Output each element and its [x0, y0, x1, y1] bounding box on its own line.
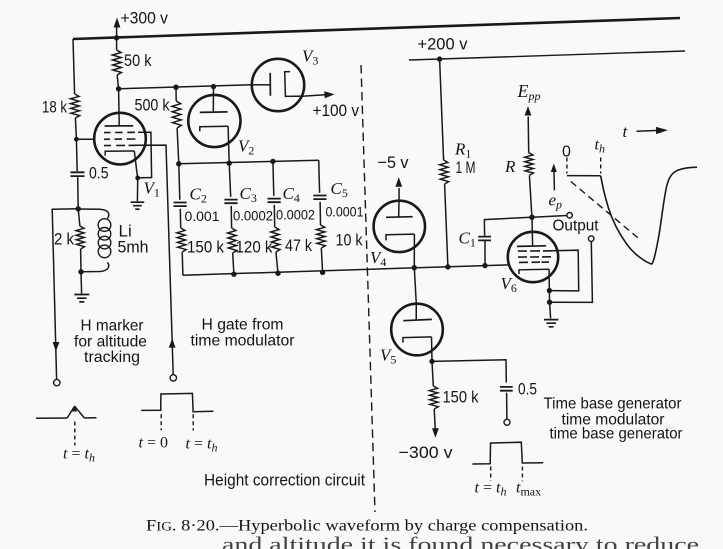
- svg-text:500 k: 500 k: [135, 96, 170, 115]
- node V1 cathode junction: [135, 176, 140, 181]
- waveform linear sweep dashed: [571, 182, 638, 238]
- svg-text:120 k: 120 k: [236, 238, 273, 257]
- V4 plate bar: [386, 216, 413, 219]
- wire 150k upper lead: [432, 361, 433, 386]
- wire V1 cathode to ground: [136, 178, 138, 201]
- inductor Li 5mh: [78, 209, 109, 219]
- node bottom bus 120k: [231, 272, 236, 277]
- capacitor C1: [478, 237, 491, 241]
- wire 500k bottom lead: [177, 128, 179, 164]
- V1 grid row 1 (screen): [104, 131, 135, 133]
- wire V5 to 0.5 cap branch: [432, 360, 506, 383]
- svg-text:0.0001: 0.0001: [326, 205, 364, 220]
- wire cathode to output node: [548, 291, 550, 303]
- waveform H marker baseline right: [84, 417, 96, 419]
- node V6 cathode tie: [547, 288, 552, 293]
- ground V1 cathode: [131, 202, 145, 209]
- svg-text:t = 0: t = 0: [139, 435, 168, 452]
- svg-text:0.0002: 0.0002: [233, 209, 273, 224]
- terminal time-base gate input: [504, 419, 510, 425]
- V6 grid row 1: [518, 250, 552, 252]
- node junction 50k / screen rail: [116, 86, 121, 91]
- svg-text:Height correction circuit: Height correction circuit: [204, 472, 365, 490]
- node bottom bus C1: [482, 263, 487, 268]
- wire 18k to grid node: [75, 118, 76, 139]
- resistor 18k: [70, 94, 79, 118]
- wire C3 column mid: [230, 206, 232, 228]
- arrowhead -300v down: [432, 428, 439, 438]
- svg-text:V3: V3: [302, 47, 318, 68]
- tick dashed at t_h: [600, 158, 602, 174]
- waveform hyperbolic decay: [601, 176, 652, 264]
- wire V4 cathode lead: [413, 234, 415, 268]
- wire V2 cathode lead: [228, 126, 229, 163]
- terminal output lower: [588, 236, 594, 242]
- svg-text:1 M: 1 M: [456, 158, 476, 177]
- svg-text:Epp: Epp: [517, 81, 541, 103]
- wire R1 upper lead: [440, 59, 444, 160]
- wire V1 plate lead: [118, 89, 121, 126]
- capacitor C4: [268, 199, 281, 203]
- wire 500k top lead: [175, 87, 177, 101]
- resistor 120k: [228, 228, 237, 253]
- node bottom bus V4 cathode: [412, 265, 417, 270]
- svg-text:V6: V6: [501, 274, 517, 295]
- node junction 2k/Li top: [76, 206, 81, 211]
- wire 2k bottom lead: [80, 249, 82, 272]
- wire V1 suppressor tie: [138, 132, 152, 178]
- wire plate node to output terminal: [532, 216, 567, 218]
- tube V2 envelope: [188, 95, 240, 147]
- svg-text:2 k: 2 k: [54, 230, 74, 249]
- resistor 150k: [177, 228, 186, 252]
- V2 plate bar: [200, 111, 228, 114]
- tick dashed at 0: [566, 158, 568, 174]
- wire 0.5 cap to 2k node: [77, 177, 80, 209]
- svg-text:0.5: 0.5: [89, 164, 109, 183]
- wire Epp arrow to R: [527, 117, 530, 153]
- wire 150k to -300v: [434, 409, 435, 430]
- svg-text:150 k: 150 k: [443, 388, 479, 407]
- node bottom bus 10k: [320, 270, 325, 275]
- resistor R1 1M: [440, 160, 449, 184]
- V3 plate bar: [269, 73, 271, 96]
- wire left to H-marker output: [52, 209, 78, 379]
- node junction 500k tap: [173, 85, 178, 90]
- tick dashed H marker: [74, 422, 76, 446]
- svg-text:t: t: [623, 122, 629, 141]
- ground below 2k/Li: [74, 295, 89, 302]
- node junction +300v rail feed: [114, 35, 119, 40]
- node bus C3/V2: [227, 161, 232, 166]
- svg-text:C1: C1: [459, 229, 476, 250]
- svg-text:ep: ep: [549, 191, 563, 212]
- svg-text:Time base generator: Time base generator: [544, 396, 683, 413]
- svg-text:+300 v: +300 v: [121, 9, 169, 28]
- svg-text:th: th: [595, 137, 605, 156]
- svg-text:V5: V5: [380, 346, 396, 367]
- svg-text:C5: C5: [331, 179, 348, 200]
- wire V6 suppressor tie: [550, 250, 579, 291]
- svg-text:H marker: H marker: [81, 318, 145, 335]
- arrowhead Epp up: [525, 106, 532, 116]
- wire C4 column lower: [276, 252, 278, 273]
- wire C5 column upper: [318, 160, 321, 193]
- svg-text:50 k: 50 k: [124, 51, 152, 70]
- waveform H marker baseline left: [36, 417, 67, 419]
- wire V5 plate lead inside: [415, 304, 417, 320]
- wire V6 plate lead: [531, 217, 534, 246]
- node V1 grid junction: [74, 137, 79, 142]
- node bottom bus 47k: [275, 271, 280, 276]
- terminal H marker output: [54, 379, 60, 385]
- resistor R: [525, 153, 534, 176]
- node V6 plate junction: [529, 215, 534, 220]
- svg-text:R: R: [504, 157, 516, 176]
- svg-text:time modulator: time modulator: [191, 333, 296, 350]
- node bus C4: [270, 159, 275, 164]
- waveform baseline: [567, 175, 601, 177]
- V6 grid row 3: [519, 261, 549, 263]
- svg-text:C4: C4: [283, 184, 300, 205]
- V4 cathode: [386, 234, 414, 240]
- capacitor 0.5 right: [500, 387, 513, 391]
- axis t arrow: [637, 130, 657, 133]
- node V5 cathode junction: [429, 359, 434, 364]
- terminal H gate input: [170, 375, 176, 381]
- wire C3 column lower: [233, 253, 234, 274]
- wire ep arrow tail: [553, 171, 555, 190]
- V1 cathode: [105, 151, 134, 156]
- capacitor C5: [313, 196, 326, 200]
- wire V4 plate lead inside: [398, 201, 400, 217]
- wire C4 column mid: [273, 205, 275, 227]
- divider dashed line: [361, 65, 375, 512]
- wire 2k top lead: [78, 209, 80, 226]
- resistor 150k lower: [429, 386, 438, 409]
- svg-text:150 k: 150 k: [187, 238, 224, 257]
- V6 cathode: [519, 269, 549, 274]
- wire to ground left: [80, 272, 83, 294]
- resistor 500k: [172, 101, 181, 128]
- wire 50k bottom lead: [117, 75, 118, 89]
- svg-text:Output: Output: [553, 218, 600, 235]
- wire V1 control grid to H-gate: [136, 145, 173, 375]
- waveform H marker spike: [67, 406, 84, 418]
- svg-text:and altitude it is found neces: and altitude it is found necessary to re…: [222, 533, 699, 549]
- terminal output upper: [567, 213, 573, 219]
- resistor 47k: [271, 227, 280, 252]
- svg-text:C3: C3: [240, 184, 257, 205]
- svg-text:−5 v: −5 v: [378, 153, 409, 172]
- resistor 50k: [112, 50, 121, 75]
- wire lower output terminal loop: [550, 241, 593, 302]
- wire R1 lower lead: [445, 184, 448, 267]
- V1 plate bar: [105, 125, 134, 127]
- wire V6 cathode lead: [548, 269, 550, 290]
- capacitor C3: [224, 200, 237, 204]
- tube V6 envelope: [508, 232, 558, 282]
- capacitor 0.5 left: [71, 172, 85, 176]
- svg-text:t = th: t = th: [475, 480, 507, 499]
- V1 grid row 3 (suppressor): [104, 144, 136, 146]
- tube V3 envelope: [252, 59, 304, 111]
- svg-text:−300 v: −300 v: [399, 443, 454, 462]
- waveform TB gate pulse: [472, 442, 543, 464]
- tick dashed H gate left: [160, 414, 162, 430]
- wire C2 column mid: [179, 209, 181, 228]
- V5 cathode: [403, 337, 432, 343]
- resistor 2k: [76, 226, 85, 249]
- node junction 2k/Li bottom: [78, 269, 83, 274]
- node junction V2 plate tap: [211, 84, 216, 89]
- node +200v R1 tap: [437, 56, 442, 61]
- tube V5 envelope: [391, 304, 443, 356]
- svg-text:t = th: t = th: [63, 446, 95, 465]
- svg-text:18 k: 18 k: [42, 98, 67, 117]
- V6 grid row 2: [518, 256, 551, 258]
- V3 cathode: [285, 72, 304, 97]
- node bus C2: [176, 161, 181, 166]
- wire V5 plate lead: [414, 268, 416, 304]
- wire C2 column upper: [179, 164, 180, 200]
- wire C5 column mid: [319, 202, 321, 225]
- capacitor C2: [174, 203, 187, 207]
- wire V3 plate lead: [252, 84, 270, 86]
- tick dashed TB left: [490, 467, 492, 482]
- svg-text:V1: V1: [144, 179, 160, 200]
- arrowhead ep up: [551, 164, 557, 173]
- wire C1 elbow to plate node: [484, 217, 531, 236]
- node bottom bus R1: [445, 264, 450, 269]
- wire V6 to ground: [550, 302, 551, 318]
- svg-text:0.001: 0.001: [185, 208, 220, 224]
- wire bottom common bus: [183, 265, 509, 275]
- V1 grid row 2 (control): [104, 138, 135, 140]
- wire screen rail to V3: [119, 85, 253, 89]
- wire C2 column lower: [181, 252, 184, 275]
- svg-text:time base generator: time base generator: [550, 426, 684, 443]
- svg-text:V2: V2: [238, 137, 254, 158]
- waveform recovery: [652, 167, 697, 264]
- arrowhead -5v input up: [395, 177, 402, 187]
- wire V3 cathode output: [304, 95, 325, 96]
- wire top +300v supply rail: [73, 18, 680, 39]
- power +300v feed arrow: [114, 18, 121, 28]
- wire C3 column upper: [229, 163, 231, 197]
- wire 0.5 cap to terminal: [506, 393, 508, 420]
- V5 plate bar: [403, 319, 432, 320]
- ground V6: [544, 320, 558, 327]
- wire grid node to V1 grid: [76, 138, 94, 140]
- svg-text:H gate from: H gate from: [202, 317, 284, 334]
- arrowhead H marker output down: [53, 342, 60, 352]
- arrowhead +100v output: [324, 91, 334, 98]
- svg-text:47 k: 47 k: [285, 236, 312, 255]
- svg-text:+100 v: +100 v: [313, 101, 360, 120]
- V6 plate bar: [517, 245, 546, 248]
- wire C1 lower lead: [484, 241, 486, 266]
- svg-text:0.0002: 0.0002: [276, 208, 315, 223]
- wire +200v rail: [409, 51, 685, 60]
- waveform H gate pulse: [141, 393, 213, 411]
- svg-text:t = th: t = th: [186, 436, 218, 455]
- wire V2 plate lead: [212, 87, 214, 112]
- node V6 output ground node: [547, 300, 552, 305]
- wire R lower lead: [529, 175, 532, 217]
- tick dashed H gate right: [192, 414, 194, 430]
- svg-text:10 k: 10 k: [336, 231, 363, 250]
- svg-text:5mh: 5mh: [118, 238, 149, 257]
- wire grid node down to 0.5 cap: [75, 139, 78, 171]
- svg-text:C2: C2: [190, 185, 207, 206]
- wire V1 cathode lead: [134, 151, 137, 178]
- wire -5v arrow to V4: [398, 188, 400, 201]
- tick dashed TB right: [521, 467, 523, 482]
- tube V4 envelope: [374, 201, 425, 252]
- svg-text:0.5: 0.5: [518, 380, 537, 399]
- wire C5 column lower: [321, 248, 322, 272]
- V2 cathode: [200, 126, 228, 131]
- arrowhead H gate input up: [169, 338, 176, 348]
- wire storage bus: [179, 160, 319, 164]
- wire 50k top lead: [116, 38, 118, 50]
- wire V5 cathode lead: [431, 337, 434, 362]
- svg-text:tracking: tracking: [84, 349, 140, 366]
- svg-text:+200 v: +200 v: [418, 35, 468, 54]
- wire C4 column upper: [272, 161, 275, 196]
- cropped body text line: [222, 533, 699, 549]
- svg-text:for altitude: for altitude: [74, 334, 147, 351]
- resistor 10k: [317, 225, 326, 248]
- tube V1 envelope: [94, 113, 146, 165]
- wire left branch from rail down to 18k: [73, 39, 75, 94]
- svg-text:V4: V4: [370, 248, 386, 269]
- svg-text:tmax: tmax: [516, 480, 541, 499]
